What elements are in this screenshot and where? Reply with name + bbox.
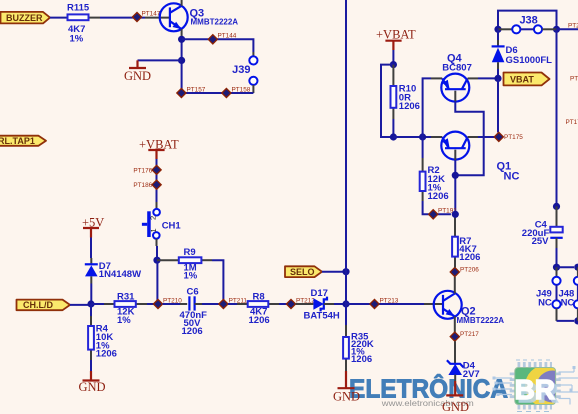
test point PT210	[153, 297, 182, 308]
junction Q3 emitter	[178, 36, 185, 43]
wire CH.L/D to node	[70, 304, 91, 306]
watermark logo ELETRONICA BR	[349, 360, 578, 412]
wire SELO to main vertical	[322, 271, 346, 273]
junction gnd tap	[178, 57, 185, 64]
pin J49 pin1	[556, 267, 558, 276]
wire D6 to VBAT node	[497, 69, 499, 78]
pin C4 negative	[556, 238, 558, 248]
svg-text:GND: GND	[333, 390, 360, 404]
pin Q2 base	[424, 303, 443, 305]
junction Q1 emitter node	[419, 133, 426, 140]
wire up to Q4 emitter	[423, 78, 431, 137]
pin Q1 collector	[468, 136, 478, 138]
svg-text:BAT54H: BAT54H	[304, 311, 340, 322]
connector J39	[232, 56, 257, 85]
test point PT144	[208, 33, 237, 44]
wire gnd tap	[138, 59, 182, 61]
pin C6 right	[195, 303, 202, 305]
resistor R8	[237, 291, 279, 326]
pin J49 pin2	[556, 308, 558, 321]
pin D7 anode	[90, 276, 92, 283]
resistor R7	[452, 214, 480, 267]
resistor R4	[88, 316, 117, 360]
junction J48 bottom	[574, 317, 578, 324]
svg-text:PT17: PT17	[566, 119, 578, 126]
svg-text:PT217: PT217	[460, 331, 479, 338]
test point PT191	[429, 208, 458, 219]
wire R10 bottom to junction	[392, 119, 394, 137]
svg-text:1206: 1206	[351, 354, 372, 365]
svg-text:PT213: PT213	[380, 298, 399, 305]
junction VBAT node	[494, 75, 501, 82]
wire R8 to PT212	[279, 303, 287, 305]
pin Q4 base	[454, 91, 456, 101]
svg-text:D17: D17	[311, 288, 328, 299]
svg-text:GS1000FL: GS1000FL	[506, 55, 553, 66]
zener diode D4 2V7	[447, 360, 480, 380]
wire right column down	[556, 29, 558, 206]
wire J49 node to J48	[557, 266, 575, 268]
svg-text:25V: 25V	[532, 236, 550, 247]
power +VBAT (left)	[139, 137, 179, 159]
test point PT176	[133, 165, 161, 174]
wire J39 bottom return	[182, 92, 254, 94]
pin D6 anode	[497, 62, 499, 69]
pin D7 cathode	[90, 258, 92, 264]
svg-text:BUZZER: BUZZER	[6, 13, 43, 23]
wire R10 bypass loop	[381, 65, 393, 137]
svg-text:PT158: PT158	[232, 86, 251, 93]
wire Q1 base down	[454, 160, 456, 214]
wire Q1 collector to PT175	[478, 136, 495, 138]
svg-text:1: 1	[149, 228, 158, 232]
transistor Q4 BC807	[441, 53, 472, 102]
junction D17 node	[342, 300, 349, 307]
svg-text:R31: R31	[117, 292, 135, 303]
svg-text:PT2: PT2	[568, 23, 578, 30]
wire R31 to PT210	[147, 303, 154, 305]
net flag RL.TAP1	[0, 136, 46, 146]
wire R9 to PT211 column	[212, 260, 223, 304]
svg-text:1206: 1206	[249, 315, 270, 326]
connector J48	[558, 267, 578, 321]
pin CH1 pin2	[156, 202, 158, 209]
svg-text:SELO: SELO	[290, 267, 315, 277]
wire R2 top	[422, 137, 424, 158]
wire Q4 collector to VBAT node	[478, 77, 498, 79]
svg-text:GND: GND	[79, 380, 106, 394]
wire PT210 to C6	[163, 303, 180, 305]
wire to right edge	[557, 28, 578, 30]
resistor R10	[391, 65, 420, 119]
wire BUZZER to R115	[50, 17, 68, 19]
pin D4 anode	[454, 375, 456, 381]
pin D6 cathode	[497, 40, 499, 46]
test point PT212	[286, 298, 315, 309]
pin Q3 emitter	[181, 29, 183, 36]
svg-text:PT176: PT176	[133, 167, 152, 174]
wire D17 to junction	[334, 303, 346, 305]
wire node to R31	[91, 303, 104, 305]
junction SELO node	[342, 268, 349, 275]
svg-text:1206: 1206	[182, 326, 203, 337]
test point PT158	[222, 86, 251, 97]
pin Q3 collector	[181, 0, 183, 6]
pin Q1 emitter	[431, 136, 442, 138]
pin D17 anode	[296, 303, 314, 305]
capacitor C4 220uF	[522, 219, 563, 247]
svg-text:J39: J39	[232, 64, 250, 76]
net flag SELO	[285, 266, 322, 277]
wire junction to Q1 emitter node	[393, 136, 431, 138]
wire J49 bottom	[557, 320, 575, 322]
pin Q4 collector	[468, 77, 478, 79]
svg-text:1%: 1%	[70, 34, 84, 45]
junction R7 top node	[452, 211, 459, 218]
pin J39 pin2	[252, 85, 254, 93]
wire to PT144 and J39	[182, 39, 254, 52]
svg-text:NC: NC	[538, 297, 552, 308]
test point PT213	[370, 298, 399, 309]
svg-text:PT175: PT175	[504, 134, 523, 141]
net flag BUZZER	[1, 12, 51, 24]
pin Q3 base	[145, 17, 169, 19]
svg-text:R8: R8	[253, 291, 265, 302]
test point PT157	[177, 86, 206, 97]
svg-text:1%: 1%	[117, 315, 131, 326]
pin CH1 pin1	[156, 239, 158, 246]
connector J38	[512, 15, 542, 34]
junction R9 node	[153, 257, 160, 264]
svg-text:+VBAT: +VBAT	[376, 28, 416, 42]
pin C6 left	[180, 303, 187, 305]
pin J38 pin2	[542, 28, 556, 30]
resistor R115	[67, 3, 100, 45]
pin Q2 collector	[454, 277, 456, 294]
svg-text:R115: R115	[67, 3, 90, 14]
svg-text:GND: GND	[442, 400, 469, 414]
svg-text:1N4148W: 1N4148W	[99, 269, 141, 280]
svg-text:PT: PT	[570, 76, 578, 83]
svg-text:1%: 1%	[184, 271, 198, 282]
svg-text:PT144: PT144	[218, 33, 237, 40]
wire main vertical	[345, 0, 347, 325]
test point PT211	[219, 297, 248, 308]
svg-text:2V7: 2V7	[463, 369, 480, 380]
wire R115 to Q3 base	[100, 17, 145, 19]
svg-text:RL.TAP1: RL.TAP1	[0, 136, 35, 146]
ground below R4	[79, 371, 106, 394]
svg-text:BR: BR	[515, 374, 555, 405]
transistor Q2 MMBT2222A	[434, 291, 505, 325]
test point PT206	[450, 266, 479, 276]
test point PT217	[450, 331, 479, 341]
svg-text:MMBT2222A: MMBT2222A	[457, 316, 505, 325]
svg-text:1206: 1206	[459, 252, 480, 263]
svg-text:NC: NC	[561, 297, 575, 308]
wire PT211 to R8	[228, 303, 237, 305]
pin Q2 emitter	[454, 317, 456, 333]
switch CH1	[142, 209, 182, 239]
connector J49	[536, 277, 561, 309]
junction J38 left	[494, 26, 501, 33]
pin J39 pin1	[252, 52, 254, 56]
wire C6 to PT211	[202, 303, 219, 305]
wire J38 bypass loop	[498, 11, 557, 26]
diode D17 BAT54H	[304, 288, 340, 322]
junction R10 top	[390, 61, 397, 68]
test point PT147	[132, 11, 160, 22]
svg-text:NC: NC	[504, 171, 520, 183]
svg-text:CH1: CH1	[162, 220, 182, 231]
wire node down to PT210	[156, 260, 158, 304]
svg-text:1206: 1206	[399, 101, 420, 112]
junction C4 top	[553, 203, 560, 210]
net flag CH.L/D	[17, 300, 71, 311]
pin J38 pin1	[498, 28, 512, 30]
resistor R35	[343, 325, 374, 371]
resistor R9	[157, 247, 212, 282]
resistor R2	[420, 158, 449, 202]
svg-text:R9: R9	[184, 247, 196, 258]
svg-text:C6: C6	[187, 286, 199, 297]
pin D4 cathode	[454, 341, 456, 363]
wire C4 to J49 node	[556, 248, 558, 267]
net flag VBAT	[504, 73, 550, 86]
wire Q4 base to Q1 base	[455, 101, 483, 175]
junction R10 bottom	[390, 133, 397, 140]
transistor Q1 NC	[441, 132, 519, 183]
svg-text:PT186: PT186	[133, 182, 152, 189]
wire R4 to gnd	[90, 360, 92, 371]
wire VBAT node to PT175	[497, 78, 499, 132]
junction Q1 base node	[452, 172, 459, 179]
junction CH.L/D node	[87, 300, 94, 307]
wire CH1 to node	[156, 246, 158, 260]
svg-text:2: 2	[149, 216, 158, 220]
power +VBAT (right)	[376, 28, 416, 50]
wire +VBAT down	[392, 50, 394, 65]
svg-text:BC807: BC807	[442, 63, 472, 74]
test point PT175	[494, 132, 523, 141]
svg-text:CH.L/D: CH.L/D	[23, 300, 53, 310]
wire R2 bottom to node	[423, 201, 451, 214]
svg-text:J38: J38	[519, 15, 537, 27]
wire D7 to node	[90, 284, 92, 305]
diode D6 GS1000FL	[492, 45, 553, 66]
svg-text:PT147: PT147	[142, 11, 161, 18]
svg-text:1206: 1206	[96, 348, 117, 359]
resistor R31	[104, 292, 147, 326]
ground below D4	[442, 381, 469, 414]
capacitor C6 470nF	[180, 286, 208, 337]
wire node down to R4	[90, 304, 92, 316]
svg-text:GND: GND	[124, 69, 151, 83]
transistor Q3 MMBT2222A	[160, 3, 239, 31]
pin C4 positive	[556, 206, 558, 226]
pin D17 cathode	[324, 303, 334, 305]
ground near Q3	[124, 60, 151, 83]
wire +5V to D7	[90, 238, 92, 259]
wire Q3 emitter node down	[181, 36, 183, 93]
junction J49 top	[553, 264, 560, 271]
junction J38 right	[553, 26, 560, 33]
power +5V	[82, 215, 104, 237]
wire D6 top	[497, 29, 499, 40]
test point PT186	[133, 180, 161, 189]
wire +VBAT to CH1	[156, 159, 158, 202]
junction J48 top	[574, 264, 578, 271]
svg-text:MMBT2222A: MMBT2222A	[191, 17, 239, 26]
pin Q4 emitter	[431, 77, 442, 79]
svg-text:PT157: PT157	[187, 86, 206, 93]
pin Q1 base	[454, 150, 456, 160]
ground below R35	[333, 371, 360, 404]
svg-text:PT206: PT206	[460, 266, 479, 273]
svg-text:1206: 1206	[428, 191, 449, 202]
diode D7 1N4148W	[85, 261, 141, 280]
svg-text:VBAT: VBAT	[510, 75, 534, 85]
wire junction to PT213 and Q2 base	[346, 303, 424, 305]
